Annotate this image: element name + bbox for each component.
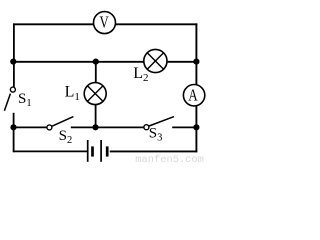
node junction right-bottom (193, 124, 199, 130)
node junction L1-bottom (92, 124, 98, 130)
wire top-right segment (115, 23, 197, 25)
svg-text:manfen5.com: manfen5.com (135, 154, 204, 163)
switch S3 (144, 117, 174, 130)
wire right vertical lower (195, 127, 197, 152)
wire top-left segment (13, 23, 94, 25)
wire bottom-left segment (13, 150, 87, 152)
battery (88, 140, 108, 162)
wire bottom-middle segment C (172, 126, 196, 128)
node junction right-middle (193, 59, 199, 65)
svg-text:S2: S2 (59, 128, 73, 146)
ammeter A (183, 85, 204, 106)
switch S2 (47, 117, 74, 130)
wire middle-right segment (168, 61, 197, 63)
svg-text:L1: L1 (65, 83, 80, 102)
wire left vertical lower (13, 113, 15, 152)
wire left vertical upper (13, 23, 15, 87)
wire L1 branch lower (95, 104, 97, 127)
svg-text:S1: S1 (18, 91, 32, 109)
node junction L1-top (93, 59, 99, 65)
voltmeter V (94, 12, 116, 34)
wire right vertical upper (195, 23, 197, 84)
wire right vertical mid (195, 106, 197, 128)
lamp L2 (144, 49, 167, 72)
svg-text:V: V (100, 13, 110, 32)
switch S1 (4, 87, 15, 111)
node junction left-bottom (10, 124, 16, 130)
node junction left-middle (10, 59, 16, 65)
wire L1 branch upper (95, 62, 97, 83)
wire bottom-right segment (110, 150, 198, 152)
svg-text:A: A (188, 85, 198, 104)
wire bottom-middle segment A (13, 126, 47, 128)
wire bottom-middle segment B (71, 126, 144, 128)
wire middle-left segment (13, 61, 144, 63)
svg-text:S3: S3 (149, 126, 163, 144)
lamp L1 (84, 83, 106, 105)
